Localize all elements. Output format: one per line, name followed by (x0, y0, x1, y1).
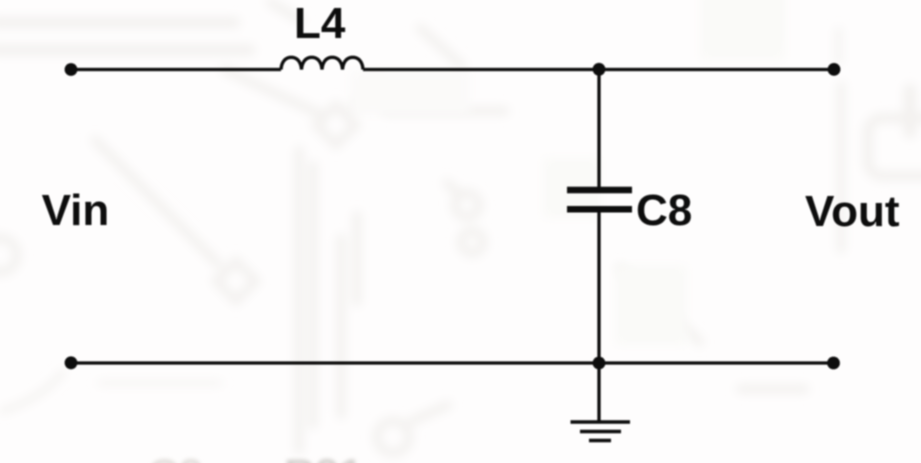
faint cut-off text R21 (148, 451, 363, 463)
node dot output bottom (827, 357, 840, 370)
svg-text:C2: C2 (148, 451, 203, 463)
svg-text:R21: R21 (284, 451, 363, 463)
wire capacitor upper vertical (597, 70, 600, 188)
wire bottom (71, 361, 834, 364)
svg-text:Vout: Vout (805, 187, 900, 236)
capacitor C8 plates (567, 190, 632, 209)
node dot junction top (593, 63, 606, 76)
node dot junction bottom (593, 357, 606, 370)
node dot input top (65, 63, 78, 76)
inductor L4 (281, 57, 363, 69)
ground (571, 422, 631, 441)
node dot output top (828, 63, 841, 76)
faint background mottling (350, 0, 785, 345)
svg-text:Vin: Vin (42, 186, 110, 235)
node dot input bottom (65, 356, 78, 369)
wire top right segment (363, 68, 835, 71)
wire top left segment (71, 68, 281, 71)
wire capacitor lower vertical (597, 212, 600, 421)
svg-text:L4: L4 (294, 0, 346, 48)
svg-text:C8: C8 (636, 186, 692, 235)
